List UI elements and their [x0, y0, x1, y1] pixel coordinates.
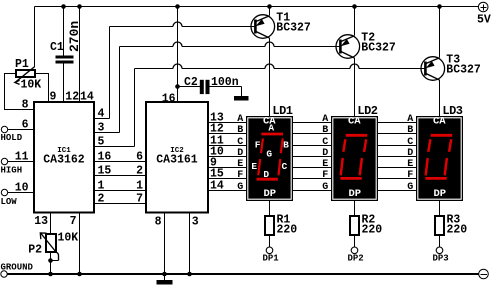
svg-text:LOW: LOW [1, 197, 18, 207]
svg-text:16: 16 [162, 93, 176, 106]
svg-text:DP3: DP3 [433, 254, 449, 264]
svg-text:G: G [322, 182, 328, 193]
svg-text:HIGH: HIGH [1, 166, 23, 176]
svg-text:C: C [407, 137, 413, 148]
svg-text:220: 220 [447, 224, 468, 237]
svg-text:C2: C2 [184, 76, 198, 89]
svg-text:CA: CA [348, 116, 361, 128]
svg-text:P2: P2 [28, 244, 42, 257]
svg-text:F: F [255, 140, 261, 151]
svg-text:G: G [237, 182, 243, 193]
svg-text:E: E [322, 159, 328, 170]
svg-text:CA3162: CA3162 [43, 154, 85, 167]
svg-text:E: E [407, 159, 413, 170]
svg-text:DP: DP [263, 188, 276, 200]
svg-text:12: 12 [65, 91, 79, 104]
svg-text:P1: P1 [15, 58, 29, 71]
svg-text:B: B [322, 125, 328, 136]
svg-text:DP1: DP1 [263, 254, 280, 264]
svg-text:1: 1 [136, 180, 143, 193]
svg-text:14: 14 [80, 91, 94, 104]
svg-text:7: 7 [136, 193, 143, 206]
svg-text:G: G [266, 148, 272, 159]
svg-text:6: 6 [22, 119, 29, 132]
svg-text:9: 9 [50, 91, 57, 104]
svg-text:A: A [407, 114, 413, 125]
svg-text:DP: DP [433, 188, 446, 200]
svg-text:CA: CA [433, 116, 446, 128]
svg-text:10K: 10K [21, 79, 42, 92]
svg-text:220: 220 [362, 224, 383, 237]
svg-text:BC327: BC327 [361, 42, 396, 55]
svg-text:A: A [268, 122, 274, 133]
svg-text:C: C [322, 137, 328, 148]
svg-text:HOLD: HOLD [1, 133, 23, 143]
svg-text:10: 10 [15, 182, 29, 195]
svg-text:CA3161: CA3161 [156, 154, 198, 167]
svg-text:B: B [237, 125, 243, 136]
svg-text:8: 8 [155, 216, 162, 229]
svg-text:220: 220 [277, 224, 298, 237]
svg-text:F: F [407, 170, 413, 181]
svg-text:2: 2 [136, 165, 143, 178]
svg-text:BC327: BC327 [276, 22, 311, 35]
svg-text:A: A [237, 114, 243, 125]
svg-text:C1: C1 [50, 41, 64, 54]
svg-text:3: 3 [192, 216, 199, 229]
svg-text:GROUND: GROUND [1, 263, 34, 273]
svg-text:C: C [237, 137, 243, 148]
svg-text:2: 2 [98, 193, 105, 206]
svg-text:1: 1 [98, 180, 105, 193]
svg-text:15: 15 [98, 165, 112, 178]
svg-text:14: 14 [210, 180, 224, 193]
svg-text:DP: DP [348, 188, 361, 200]
svg-text:11: 11 [15, 151, 29, 164]
svg-text:B: B [407, 125, 413, 136]
svg-text:8: 8 [22, 99, 29, 112]
svg-text:B: B [283, 140, 289, 151]
svg-text:C: C [281, 161, 287, 172]
svg-text:D: D [263, 169, 269, 180]
svg-text:F: F [322, 170, 328, 181]
svg-text:D: D [407, 148, 413, 159]
svg-text:16: 16 [98, 151, 112, 164]
svg-text:A: A [322, 114, 328, 125]
svg-text:10K: 10K [58, 232, 79, 245]
svg-text:7: 7 [70, 215, 77, 228]
svg-text:BC327: BC327 [446, 64, 481, 77]
svg-text:13: 13 [34, 215, 48, 228]
svg-text:E: E [251, 161, 257, 172]
svg-text:G: G [407, 182, 413, 193]
svg-text:D: D [237, 148, 243, 159]
svg-text:DP2: DP2 [348, 254, 364, 264]
svg-text:D: D [322, 148, 328, 159]
svg-text:5V: 5V [477, 14, 491, 27]
svg-text:100n: 100n [211, 76, 239, 89]
svg-text:E: E [237, 159, 243, 170]
svg-text:6: 6 [136, 151, 143, 164]
svg-text:F: F [237, 170, 243, 181]
